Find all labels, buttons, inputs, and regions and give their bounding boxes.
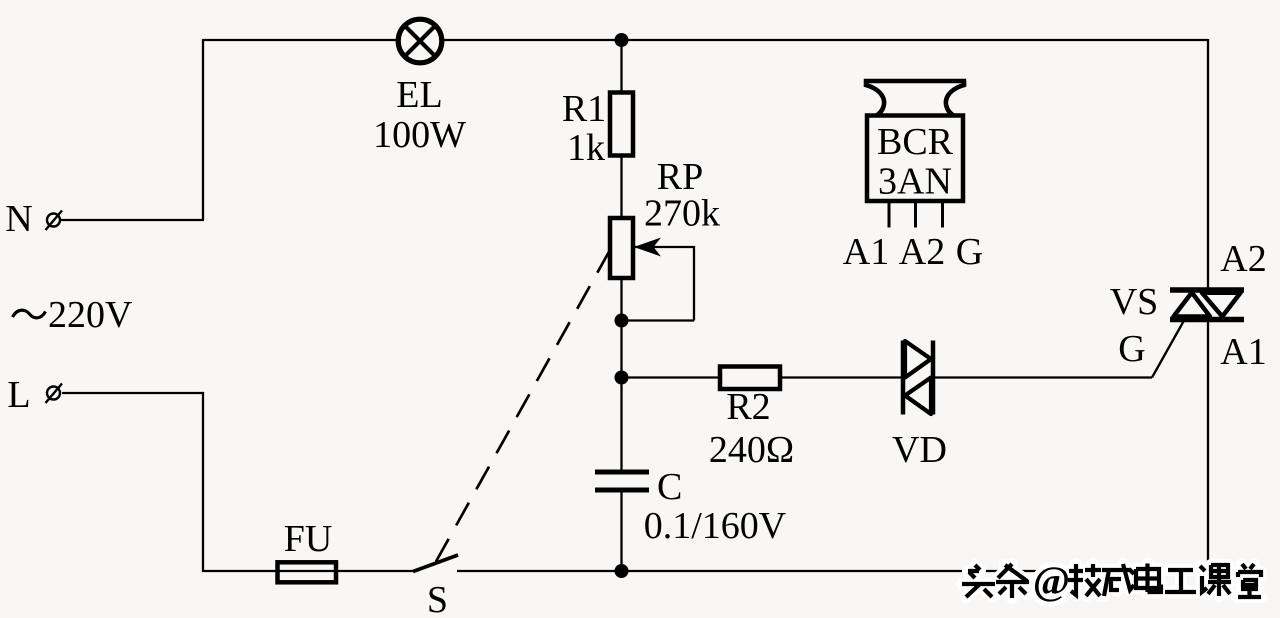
wire: RP wiper loop horizontal to node [621, 319, 694, 321]
svg-text:FU: FU [284, 518, 333, 560]
svg-text:3AN: 3AN [878, 161, 952, 203]
node B: junction RP bottom / wiper loop [615, 314, 629, 328]
wire: RP wiper horizontal with arrow tail [634, 246, 694, 248]
label ~220V [13, 294, 134, 336]
resistor R2 [720, 367, 780, 390]
svg-text:A1: A1 [843, 231, 889, 273]
wire: center vertical below capacitor C [620, 490, 622, 572]
svg-text:L: L [7, 374, 30, 416]
wire: left vertical from N terminal up to top wire [202, 39, 204, 220]
wire: top horizontal N-line [203, 39, 1208, 41]
terminal L [46, 384, 63, 404]
lamp EL [398, 19, 442, 63]
wire: bottom horizontal right of switch [457, 570, 1208, 572]
RP wiper arrowhead [634, 238, 661, 257]
wire: gate line from node to R2 [622, 376, 721, 378]
watermark text 头条@技成电工课堂 [962, 558, 1261, 603]
node A: junction top wire / R1 branch [615, 33, 629, 47]
wire: right vertical above triac (A2 lead) [1207, 39, 1209, 288]
svg-text:270k: 270k [644, 193, 720, 235]
wire: diac VD to gate bend [933, 376, 1152, 378]
node D: junction bottom wire / C branch [615, 564, 629, 578]
svg-text:N: N [5, 198, 32, 240]
svg-text:A2: A2 [899, 231, 945, 273]
svg-text:A1: A1 [1220, 331, 1266, 373]
capacitor C [595, 472, 649, 490]
svg-text:0.1/160V: 0.1/160V [644, 505, 787, 547]
wire: N terminal horizontal [61, 219, 204, 221]
svg-text:@: @ [1033, 558, 1070, 603]
resistor R1 [610, 93, 633, 156]
svg-text:S: S [427, 579, 448, 618]
svg-text:G: G [1118, 328, 1145, 370]
svg-text:VS: VS [1110, 281, 1159, 323]
watermark: white halo strokes [962, 558, 1261, 603]
wire: diagonal gate lead to triac VS [1152, 321, 1184, 378]
BCR pin A1 [888, 201, 891, 228]
svg-text:100W: 100W [373, 114, 466, 156]
wire: R2 to diac VD [780, 376, 903, 378]
svg-text:BCR: BCR [877, 121, 954, 163]
triac VS [1170, 290, 1244, 320]
node C: junction gate line [615, 371, 629, 385]
terminal N [46, 211, 63, 231]
svg-text:R2: R2 [726, 386, 770, 428]
svg-text:240Ω: 240Ω [709, 429, 794, 471]
svg-text:A2: A2 [1220, 238, 1266, 280]
wire: right vertical below triac (A1 lead) [1207, 321, 1209, 572]
diac VD [903, 341, 933, 415]
dashed mechanical link S to RP [436, 250, 610, 562]
fuse FU [278, 562, 337, 582]
wire: bottom horizontal left of switch [202, 570, 413, 572]
wire: L terminal horizontal [62, 392, 204, 394]
BCR pin A2 [914, 201, 917, 228]
svg-text:R1: R1 [562, 88, 606, 130]
switch S blade [413, 555, 458, 572]
svg-text:1k: 1k [567, 127, 605, 169]
svg-text:G: G [956, 231, 983, 273]
svg-text:VD: VD [892, 429, 947, 471]
BCR package outline (tab) [864, 81, 966, 116]
svg-text:220V: 220V [48, 294, 133, 336]
BCR package body [867, 116, 963, 202]
svg-text:EL: EL [396, 74, 442, 116]
BCR pin G [941, 201, 944, 228]
potentiometer RP [610, 218, 633, 278]
wire: RP wiper loop vertical [693, 246, 695, 321]
wire: center vertical branch (R1/RP/C string) [620, 39, 622, 472]
svg-text:C: C [657, 466, 682, 508]
wire: left vertical from L terminal down to bottom wire [202, 392, 204, 572]
